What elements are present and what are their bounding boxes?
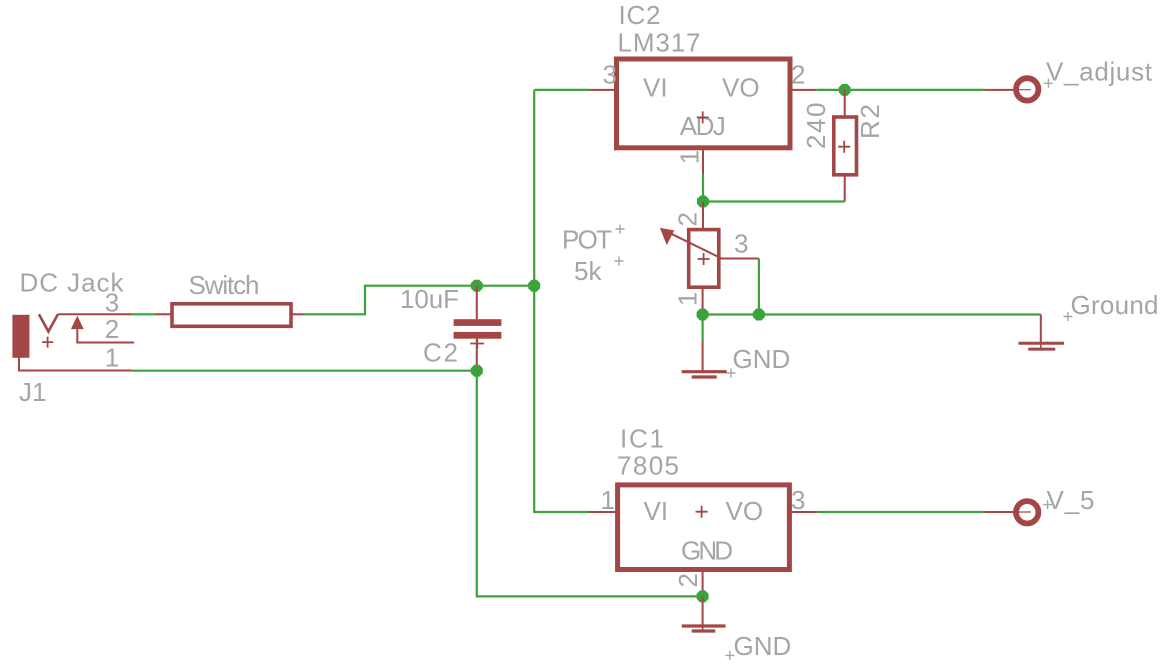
- regulator IC1 7805 body: [618, 485, 790, 570]
- junction at R2 top: [839, 84, 851, 96]
- svg-text:VO: VO: [726, 496, 764, 526]
- ground symbol GND below IC1: [682, 596, 726, 631]
- wire vertical trunk to IC2 and IC1: [534, 90, 589, 512]
- svg-text:1: 1: [601, 485, 615, 515]
- wire POT pin1 down to GND: [701, 315, 703, 343]
- svg-text:5k: 5k: [574, 256, 602, 286]
- port pin V_adjust: [985, 78, 1039, 100]
- wire trunk to IC2 VI: [534, 89, 589, 91]
- svg-text:1: 1: [674, 150, 704, 164]
- wire switch to top rail: [304, 286, 535, 315]
- IC1 pin 2 (GND) stub: [702, 570, 704, 597]
- V_adjust origin cross: [1044, 79, 1053, 88]
- POT origin cross 1: [616, 225, 625, 234]
- Ground origin cross: [1063, 312, 1072, 321]
- resistor R2: [834, 90, 857, 202]
- IC2 pin 2 stub: [790, 89, 816, 91]
- IC1 pin 1 stub: [590, 511, 618, 513]
- svg-text:IC1: IC1: [620, 423, 664, 453]
- svg-text:V_5: V_5: [1047, 485, 1095, 515]
- wire J1 pin3 to switch: [132, 313, 157, 315]
- bottom wire J1 pin1 to C2 bottom: [132, 370, 477, 372]
- svg-text:IC2: IC2: [619, 0, 661, 30]
- port pin V_5: [985, 501, 1039, 523]
- svg-text:V_adjust: V_adjust: [1046, 57, 1153, 87]
- IC2 pin 1 (ADJ) stub: [702, 148, 704, 174]
- svg-text:10uF: 10uF: [400, 284, 459, 314]
- svg-text:LM317: LM317: [618, 28, 701, 58]
- junction at C2 top: [471, 280, 483, 292]
- svg-text:VI: VI: [643, 72, 668, 102]
- svg-text:2: 2: [791, 59, 805, 89]
- wire IC1 VO to V_5: [817, 511, 984, 513]
- junction POT wiper at ground rail: [753, 309, 765, 321]
- svg-text:3: 3: [603, 59, 617, 89]
- svg-text:VO: VO: [722, 72, 760, 102]
- svg-text:J1: J1: [19, 377, 46, 407]
- IC2 pin 3 stub: [590, 89, 617, 91]
- connector J1 (DC Jack) symbol: [12, 314, 134, 370]
- svg-text:POT: POT: [562, 224, 612, 254]
- potentiometer POT: [660, 202, 759, 315]
- svg-text:3: 3: [734, 229, 748, 259]
- svg-text:2: 2: [673, 573, 703, 587]
- svg-text:GND: GND: [733, 344, 791, 374]
- junction at C2 bottom: [471, 365, 483, 377]
- junction at ADJ node: [697, 196, 709, 208]
- svg-text:3: 3: [105, 288, 119, 318]
- svg-text:7805: 7805: [617, 451, 679, 481]
- svg-text:240: 240: [801, 103, 831, 150]
- svg-text:GND: GND: [734, 631, 792, 661]
- ground rail wire to Ground port: [703, 313, 1041, 315]
- wire IC2 ADJ down: [702, 174, 704, 202]
- GND origin cross (IC1): [725, 651, 734, 660]
- IC2 origin cross: [697, 111, 709, 123]
- wire IC2 VO to V_adjust: [816, 89, 984, 91]
- svg-text:Switch: Switch: [189, 270, 260, 300]
- POT origin cross 2: [615, 257, 624, 266]
- svg-text:1: 1: [105, 343, 119, 373]
- svg-text:C2: C2: [423, 337, 458, 367]
- wire ADJ node to R2 bottom: [703, 200, 845, 202]
- svg-text:VI: VI: [644, 496, 669, 526]
- regulator IC2 LM317 body: [617, 59, 791, 148]
- svg-text:GND: GND: [681, 536, 733, 566]
- svg-text:R2: R2: [855, 104, 885, 139]
- junction at cross node: [528, 280, 540, 292]
- wire POT wiper down to ground rail: [758, 259, 760, 315]
- IC1 origin cross: [696, 506, 708, 518]
- junction POT pin1 at ground rail: [697, 309, 709, 321]
- ground symbol at Ground port: [1019, 315, 1065, 350]
- capacitor C2: [454, 286, 502, 371]
- IC1 pin 3 stub: [789, 511, 817, 513]
- svg-text:1: 1: [673, 292, 703, 306]
- switch S1: [156, 304, 304, 327]
- svg-text:2: 2: [105, 314, 119, 344]
- ground symbol GND below POT: [682, 342, 727, 377]
- V_5 origin cross: [1043, 500, 1052, 509]
- svg-text:Ground: Ground: [1071, 290, 1159, 320]
- wire C2 bottom down to IC1 GND: [477, 371, 703, 597]
- junction IC1 GND node: [697, 590, 709, 602]
- svg-text:3: 3: [791, 485, 805, 515]
- svg-text:2: 2: [673, 212, 703, 226]
- GND origin cross (POT): [727, 369, 736, 378]
